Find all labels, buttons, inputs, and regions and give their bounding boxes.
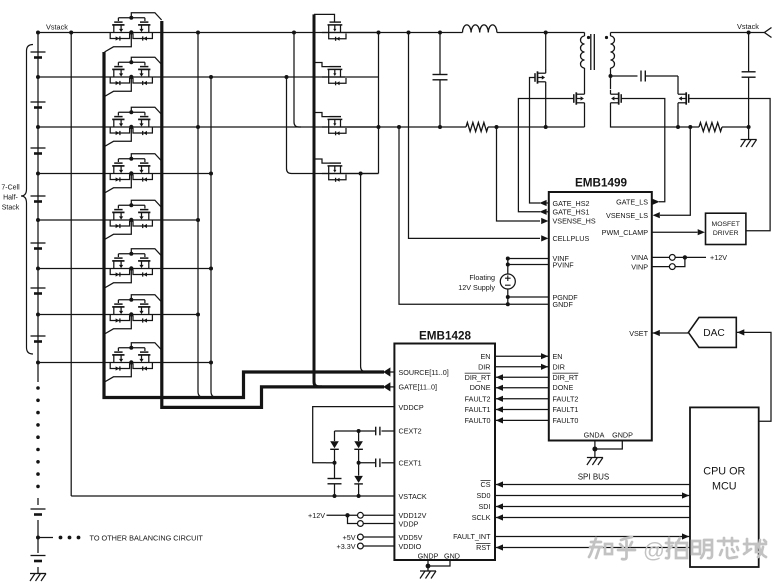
svg-text:VDDP: VDDP	[399, 519, 419, 528]
junction battery tap row 7	[36, 361, 40, 365]
wire row1	[38, 76, 345, 78]
wire row0 / top rail (Vstack)	[38, 32, 463, 34]
svg-text:PVINF: PVINF	[553, 261, 575, 270]
svg-text:MOSFET: MOSFET	[712, 221, 740, 228]
phase dot primary	[587, 36, 590, 39]
svg-text:FAULT_INT: FAULT_INT	[453, 532, 491, 541]
svg-text:DIR_RT: DIR_RT	[465, 373, 491, 382]
IC U4 CPU OR MCU box	[690, 407, 759, 567]
svg-text:GATE[11..0]: GATE[11..0]	[399, 383, 437, 392]
svg-text:VINA: VINA	[631, 253, 648, 262]
battery cell (lower stack)	[31, 508, 46, 510]
svg-text:EN: EN	[553, 352, 563, 361]
battery cell B3	[31, 147, 46, 149]
ground (battery stack bottom)	[30, 573, 46, 575]
svg-text:DAC: DAC	[703, 328, 725, 339]
resistor R-load (secondary)	[699, 123, 722, 132]
wire battery stack lower section with ellipsis	[37, 364, 39, 382]
junction battery tap row 0	[36, 31, 40, 35]
svg-text:GNDP: GNDP	[418, 552, 439, 561]
balancing MOSFET pair Q5/Q6 (row 2)	[118, 111, 144, 113]
supply floating 12V	[508, 258, 549, 260]
junction Vstack sense tap	[69, 31, 73, 35]
svg-text:Floating: Floating	[469, 273, 495, 282]
svg-text:SCLK: SCLK	[472, 513, 491, 522]
wire CELLPLUS from top rail	[409, 33, 541, 239]
transformer T1 secondary	[610, 33, 612, 37]
watermark 知乎 @拍明芯城 (drawn strokes)	[589, 537, 635, 559]
svg-text:Vstack: Vstack	[737, 22, 759, 31]
ground (EMB1499 GNDA/GNDP)	[587, 457, 603, 459]
svg-text:EN: EN	[481, 352, 491, 361]
battery cell B7	[31, 335, 46, 337]
wire chain tap to SOURCE bus (x=361)	[361, 174, 368, 372]
svg-text:FAULT0: FAULT0	[553, 416, 579, 425]
battery cell B4	[31, 195, 46, 197]
wire row7	[38, 362, 211, 364]
MOSFET QB (primary low-side)	[573, 94, 575, 103]
resistor R-sense (bottom rail)	[466, 123, 488, 132]
diode D2 (mid chain upper)	[357, 429, 361, 433]
wire QB gate to GATE_HS1	[518, 99, 573, 212]
wire QC gate to GATE_LS	[621, 99, 665, 202]
wire PWM_CLAMP to MOSFET driver	[652, 231, 698, 233]
battery cell B1	[31, 51, 46, 53]
svg-text:FAULT2: FAULT2	[465, 394, 491, 403]
svg-text:EMB1499: EMB1499	[575, 177, 627, 190]
wire Vstack sense to EMB1428 VSTACK	[70, 33, 72, 497]
balancing MOSFET pair Q7/Q8 (row 3)	[118, 158, 144, 160]
battery cell B5	[31, 242, 46, 244]
transformer T1 core	[590, 34, 592, 70]
capacitor CEXT1	[382, 462, 395, 464]
svg-text:GATE_HS2: GATE_HS2	[553, 199, 590, 208]
svg-text:Stack: Stack	[2, 205, 20, 212]
wire row5	[38, 268, 211, 270]
junction battery tap row 6	[36, 313, 40, 317]
wires EN..FAULT0 between EMB1428 and EMB1499	[495, 355, 549, 357]
svg-text:VDDIO: VDDIO	[399, 542, 422, 551]
svg-text:SD0: SD0	[477, 491, 491, 500]
svg-text:DONE: DONE	[470, 383, 491, 392]
svg-text:DRIVER: DRIVER	[713, 230, 739, 237]
DAC block	[652, 332, 689, 334]
svg-text:TO OTHER BALANCING CIRCUIT: TO OTHER BALANCING CIRCUIT	[90, 534, 204, 543]
wire VSENSE_HS from bottom rail	[497, 127, 541, 221]
MOSFET QA (buck high-side)	[534, 73, 536, 82]
svg-text:CEXT2: CEXT2	[399, 427, 422, 436]
svg-text:FAULT1: FAULT1	[465, 405, 491, 414]
wire to other balancing circuit	[38, 537, 53, 539]
capacitor C-filter (x=440)	[439, 33, 441, 75]
capacitor C-pump (left chain)	[334, 463, 336, 479]
balancing MOSFET pair Q1/Q2 (row 0)	[118, 17, 144, 19]
wire high-side FET branch (x=545.7)	[545, 33, 547, 70]
wire link row0 to row2 (x=294)	[294, 33, 301, 128]
svg-text:VDDCP: VDDCP	[399, 403, 424, 412]
svg-text:FAULT0: FAULT0	[465, 416, 491, 425]
svg-text:GATE_LS: GATE_LS	[616, 197, 648, 206]
bus column-2 gate bus (thick, joins GATE bus)	[314, 14, 322, 387]
inductor L1 (buck filter)	[463, 25, 497, 33]
balancing MOSFET pair Q3/Q4 (row 1)	[118, 61, 144, 63]
junction dots on rails	[407, 31, 411, 35]
svg-text:CPU OR: CPU OR	[703, 466, 745, 478]
svg-text:FAULT1: FAULT1	[553, 405, 579, 414]
bracket 7-cell half-stack	[21, 45, 33, 355]
svg-text:GNDP: GNDP	[612, 431, 633, 440]
svg-text:@: @	[643, 539, 665, 563]
balancing MOSFET M4 (column 2)	[314, 159, 330, 163]
svg-text:CELLPLUS: CELLPLUS	[553, 234, 590, 243]
svg-text:GND: GND	[444, 552, 460, 561]
svg-text:12V Supply: 12V Supply	[458, 283, 495, 292]
junction battery tap row 4	[36, 218, 40, 222]
IC U3 MOSFET DRIVER box	[706, 213, 746, 244]
wire secondary bottom rail	[611, 122, 700, 127]
svg-text:SOURCE[11..0]: SOURCE[11..0]	[399, 368, 449, 377]
diode D1 (left chain)	[334, 431, 336, 441]
svg-text:+12V: +12V	[710, 253, 727, 262]
svg-text:VSTACK: VSTACK	[399, 492, 427, 501]
wire row6	[38, 314, 198, 316]
wire CPU to DAC	[737, 332, 771, 421]
svg-text:FAULT2: FAULT2	[553, 394, 579, 403]
svg-text:GNDF: GNDF	[553, 300, 574, 309]
wire VSENSE_LS sense	[660, 127, 690, 215]
phase dot secondary	[605, 36, 608, 39]
IC U1 EMB1428 box	[394, 344, 495, 561]
junction battery tap row 1	[36, 75, 40, 79]
svg-text:Half-: Half-	[3, 195, 18, 202]
capacitor C-out (x=748.6)	[748, 33, 750, 72]
wire GNDP/GND to ground	[427, 560, 429, 571]
transformer T1 primary	[584, 33, 586, 37]
MOSFET QC (sync rect low)	[620, 94, 622, 103]
wire QA gate to GATE_HS2	[530, 78, 541, 204]
bus GATE[11..0] (right thick bus to EMB1428)	[162, 21, 384, 407]
wire tap column B (x=211)	[211, 77, 220, 398]
balancing MOSFET M1 (column 2)	[314, 14, 335, 22]
svg-text:VSENSE_HS: VSENSE_HS	[553, 217, 596, 226]
wire column-2 series chain	[378, 33, 380, 174]
svg-text:CS: CS	[481, 480, 491, 489]
svg-text:DIR: DIR	[478, 362, 490, 371]
connector Vstack (top right)	[764, 28, 771, 38]
wire battery stack vertical	[37, 33, 39, 365]
svg-text:Vstack: Vstack	[46, 23, 68, 32]
svg-text:SDI: SDI	[479, 502, 491, 511]
wire row4	[38, 219, 198, 221]
svg-text:PWM_CLAMP: PWM_CLAMP	[602, 228, 649, 237]
bus SOURCE[11..0] (left thick bus to EMB1428)	[104, 52, 384, 398]
wire GNDA/GNDP to ground	[594, 441, 596, 458]
svg-text:GNDA: GNDA	[584, 431, 605, 440]
svg-text:VINP: VINP	[631, 262, 648, 271]
svg-text:MCU: MCU	[712, 481, 737, 493]
balancing MOSFET pair Q13/Q14 (row 6)	[118, 299, 144, 301]
wire row2 / converter bottom rail	[38, 126, 466, 128]
junction battery tap row 3	[36, 172, 40, 176]
junction battery tap row 5	[36, 267, 40, 271]
wire QD gate to MOSFET DRIVER	[689, 99, 770, 231]
wire row3	[38, 173, 211, 175]
svg-text:EMB1428: EMB1428	[419, 330, 471, 343]
svg-text:GATE_HS1: GATE_HS1	[553, 208, 590, 217]
svg-text:VDD5V: VDD5V	[399, 533, 423, 542]
svg-text:DIR: DIR	[553, 362, 565, 371]
charge pump network (VDDCP/CEXT)	[313, 407, 395, 463]
wire GNDF from bottom rail	[399, 127, 549, 304]
diode D3 (mid chain lower)	[358, 463, 360, 476]
svg-text:VSET: VSET	[629, 329, 648, 338]
svg-text:+3.3V: +3.3V	[337, 542, 356, 551]
svg-text:CEXT1: CEXT1	[399, 459, 422, 468]
svg-text:VSENSE_LS: VSENSE_LS	[606, 211, 648, 220]
svg-text:+12V: +12V	[308, 511, 325, 520]
junction to other balancing circuit	[36, 536, 40, 540]
svg-text:SPI BUS: SPI BUS	[578, 473, 610, 482]
op-amp/IC U2 EMB1499 box	[549, 192, 652, 441]
balancing MOSFET pair Q9/Q10 (row 4)	[118, 204, 144, 206]
wire link row1 to M4 segment (x=286.5)	[287, 77, 379, 174]
MOSFET QD (sync rect high)	[688, 94, 690, 103]
svg-text:7-Cell: 7-Cell	[1, 185, 20, 192]
ground (EMB1428)	[420, 570, 436, 572]
balancing MOSFET M3 (column 2)	[314, 113, 330, 117]
wire top rail right to Vstack connector	[611, 32, 765, 34]
ground (output)	[741, 139, 757, 141]
capacitor CEXT2	[382, 430, 395, 432]
connector VINA/VINP +12V	[652, 256, 670, 258]
node secondary bottom	[609, 74, 613, 78]
svg-text:DIR_RT: DIR_RT	[553, 373, 579, 382]
battery cell B2	[31, 101, 46, 103]
svg-text:RST: RST	[476, 543, 491, 552]
battery cell B6	[31, 287, 46, 289]
balancing MOSFET M2 (column 2)	[314, 63, 330, 67]
balancing MOSFET pair Q15/Q16 (row 7)	[118, 347, 144, 349]
capacitor C-series (secondary)	[611, 75, 638, 77]
wire tap column A (x=198)	[198, 33, 207, 398]
svg-text:+5V: +5V	[343, 533, 356, 542]
balancing MOSFET pair Q11/Q12 (row 5)	[118, 253, 144, 255]
svg-text:DONE: DONE	[553, 383, 574, 392]
wires SPI bus	[495, 484, 690, 486]
junction battery tap row 2	[36, 125, 40, 129]
battery cell (bottom)	[31, 555, 46, 557]
